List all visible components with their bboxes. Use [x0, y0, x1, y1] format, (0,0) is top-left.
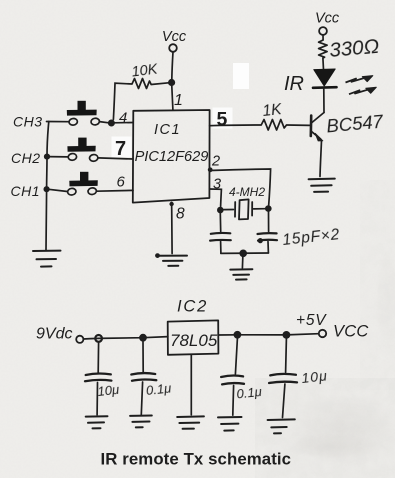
pushbutton S3 right terminal: [88, 187, 97, 195]
svg-text:VCC: VCC: [333, 323, 368, 341]
svg-text:5: 5: [217, 109, 228, 131]
junction dot caps bottom: [239, 250, 247, 258]
svg-text:10μ: 10μ: [97, 382, 120, 399]
junction dot crystal left: [217, 207, 224, 214]
wire CH3 to S1: [47, 121, 69, 123]
svg-text:Vcc: Vcc: [162, 29, 187, 45]
wire pin5 to 1K: [210, 124, 262, 127]
pushbutton S3 stem: [80, 172, 88, 182]
wire 1K to base: [287, 124, 310, 126]
junction dot crystal right: [265, 205, 272, 212]
pin 7 label (printed, on white patch): [112, 137, 132, 158]
ground (pin 8): [155, 253, 160, 258]
ground (C4): [130, 415, 152, 417]
wire rail right: [218, 334, 318, 335]
wire caps bottom join: [221, 252, 269, 254]
svg-text:+5V: +5V: [296, 312, 327, 329]
wire S1 to pin4 node: [100, 122, 109, 123]
wire pin1 (junction to IC top): [172, 86, 173, 110]
wire crystal left down to C1: [219, 213, 221, 232]
svg-text:1: 1: [174, 92, 183, 109]
wire 330 to LED: [322, 58, 325, 70]
wire emitter to ground: [320, 141, 322, 177]
wire S2 to IC pin7: [98, 158, 133, 159]
LED light arrow 2: [349, 89, 369, 94]
svg-text:CH3: CH3: [13, 114, 43, 130]
resistor R1 10K body: [132, 79, 151, 89]
wire Vcc to 330: [322, 35, 324, 40]
wire C6 to ground: [283, 384, 285, 418]
capacitor C4 plates: [131, 373, 155, 374]
crystal X1 body: [224, 209, 234, 211]
svg-text:IC1: IC1: [154, 122, 181, 138]
pushbutton S1 right terminal: [91, 118, 100, 126]
junction dot rail C3: [95, 335, 102, 342]
svg-text:1K: 1K: [262, 101, 283, 120]
wire pin4 node to IC: [114, 122, 133, 124]
wire pin8 to ground: [171, 203, 174, 254]
capacitor C5 plates: [221, 376, 243, 377]
wire 10K left lead and drop to pin4 node: [113, 83, 132, 119]
junction dot rail C6: [283, 331, 291, 339]
pushbutton S1 bar: [67, 110, 97, 116]
wire S3 to IC pin6: [97, 189, 133, 192]
LED light arrow 1: [346, 78, 366, 83]
svg-text:10μ: 10μ: [301, 367, 329, 386]
junction dot bus/CH2: [44, 154, 50, 160]
wire pin3 to crystal left: [210, 189, 222, 207]
wire C2 down: [267, 242, 269, 253]
svg-text:2: 2: [211, 154, 220, 170]
capacitor C3 plates: [86, 374, 111, 375]
svg-text:CH1: CH1: [11, 183, 41, 199]
LED D1 cathode bar: [313, 86, 337, 89]
svg-text:IR: IR: [284, 73, 304, 95]
terminal circle Vcc right: [319, 27, 327, 35]
svg-text:9Vdc: 9Vdc: [36, 326, 72, 343]
ground (C6): [268, 418, 295, 421]
pin 5 label (printed, on white patch): [213, 108, 233, 129]
capacitor C2 15pF plates: [258, 232, 277, 235]
wire C5 to ground: [232, 386, 235, 416]
pushbutton S1 stem: [78, 101, 86, 111]
svg-text:330Ω: 330Ω: [328, 35, 380, 62]
capacitor C3 10u lead: [97, 342, 99, 373]
bus wire left (CH3 down to ground): [46, 122, 49, 251]
transistor Q1 emitter arrowhead: [315, 133, 323, 141]
svg-text:6: 6: [117, 174, 126, 191]
junction dot rail C5: [234, 331, 242, 339]
capacitor C1 15pF plates: [211, 232, 231, 235]
wire Vcc to junction: [172, 52, 173, 80]
wire C3 to ground: [96, 383, 98, 415]
capacitor C6 plates: [270, 374, 296, 375]
svg-text:CH2: CH2: [11, 150, 41, 166]
wire to crystal ground: [241, 255, 244, 268]
transistor Q1 BC547 collector segment: [312, 113, 324, 123]
junction dot rail C4: [139, 334, 147, 342]
capacitor C6 10u lead: [285, 339, 288, 373]
wire LED to collector: [323, 89, 325, 113]
pushbutton S2 stem: [78, 138, 86, 148]
pushbutton S2 bar: [67, 146, 95, 152]
terminal circle VCC out: [319, 330, 326, 337]
svg-text:0.1μ: 0.1μ: [236, 384, 263, 402]
transistor Q1 base bar: [309, 116, 312, 136]
ground (C3): [86, 415, 108, 417]
IC U2 box 78L05: [168, 320, 219, 354]
pushbutton S3 bar: [69, 180, 98, 186]
capacitor C4 0.1u lead: [142, 342, 144, 372]
capacitor C5 0.1u lead: [235, 339, 237, 375]
pushbutton S2 right terminal: [89, 154, 98, 162]
svg-text:Vcc: Vcc: [315, 11, 340, 27]
wire C1 down: [220, 242, 222, 254]
LED D1 IR (triangle): [314, 69, 335, 86]
junction dot 10K/Vcc: [168, 79, 175, 86]
pin 2 exit dot: [208, 167, 213, 172]
white-out patch: [233, 63, 249, 89]
svg-text:IC2: IC2: [177, 298, 208, 316]
terminal circle 9V: [76, 336, 83, 343]
svg-text:78L05: 78L05: [170, 331, 218, 350]
svg-text:8: 8: [176, 206, 185, 223]
svg-text:4: 4: [119, 110, 127, 127]
svg-text:10K: 10K: [131, 61, 160, 80]
transistor Q1 emitter segment: [311, 131, 321, 139]
wire bus to S3: [48, 189, 68, 191]
resistor R3 330 body (vertical zigzag): [319, 40, 328, 58]
svg-text:7: 7: [115, 138, 126, 160]
junction dot pin8 stub: [169, 202, 173, 206]
junction dot bus/CH1: [44, 186, 50, 192]
ground (crystal caps): [230, 268, 252, 270]
pushbutton S1 left terminal: [69, 118, 78, 126]
wire 10K right lead: [151, 83, 168, 85]
svg-text:PIC12F629: PIC12F629: [135, 149, 209, 165]
terminal circle Vcc top: [169, 44, 177, 52]
wire rail left: [83, 337, 167, 339]
wire bus to S2: [48, 156, 68, 158]
svg-text:4-MH2: 4-MH2: [229, 185, 265, 199]
wire IC2 to ground: [190, 355, 192, 415]
ground (button bus): [33, 250, 61, 252]
resistor R2 1K body: [261, 120, 286, 131]
wire crystal right down to C2: [268, 212, 270, 232]
svg-text:0.1μ: 0.1μ: [145, 380, 172, 398]
pushbutton S2 left terminal: [68, 153, 77, 161]
pin 4 node circle: [109, 120, 115, 126]
pushbutton S3 left terminal: [67, 188, 76, 196]
svg-text:IR remote Tx schematic: IR remote Tx schematic: [101, 450, 292, 469]
IC U1 box (IC1 PIC12F629): [133, 110, 210, 203]
ground (emitter): [309, 178, 335, 181]
wire pin2 to crystal right: [210, 169, 271, 205]
ground (C5): [218, 416, 242, 418]
ground (IC2): [177, 415, 204, 418]
wire C4 to ground: [141, 382, 142, 415]
